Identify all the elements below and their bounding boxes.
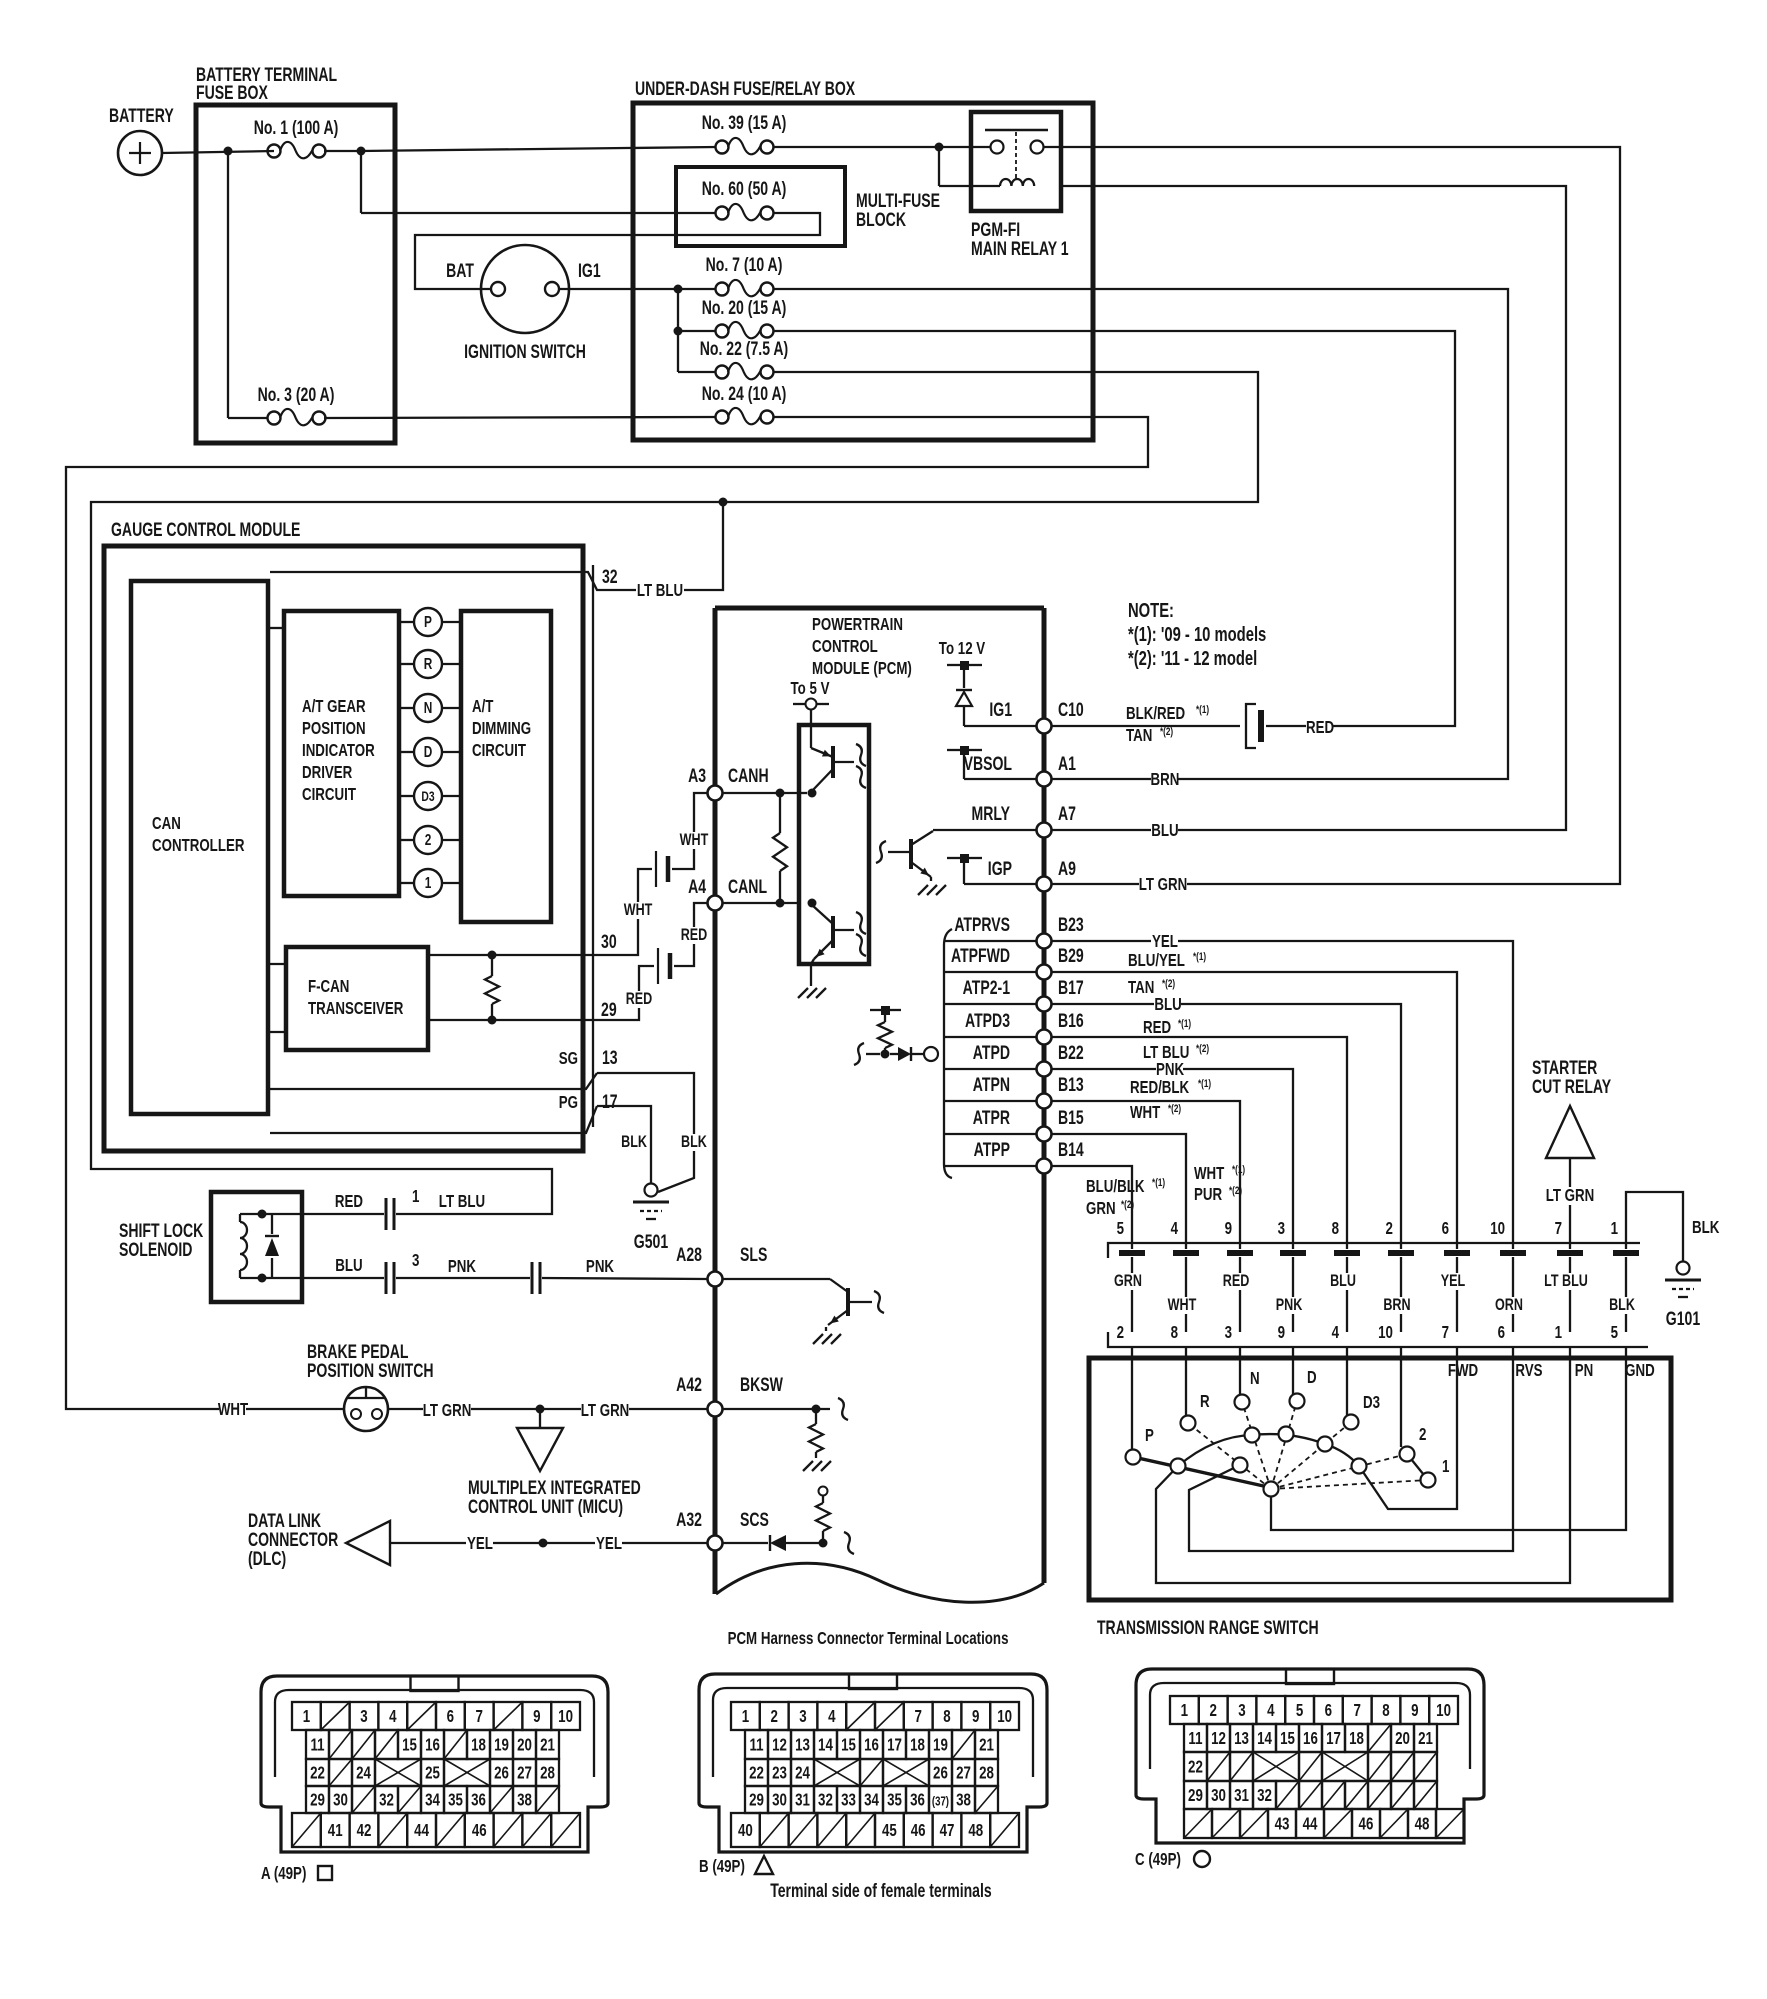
svg-text:BLK: BLK [1609,1295,1635,1314]
svg-text:7: 7 [1354,1701,1362,1720]
svg-text:13: 13 [1234,1729,1249,1748]
svg-text:*(1): *(1) [1196,704,1209,717]
gear indicator R [399,663,414,665]
wire branch down to fuse60 [360,151,362,213]
svg-text:18: 18 [910,1736,925,1755]
route arc end to FWD [1359,1466,1457,1509]
connector B cell 33 [837,1786,860,1813]
connector C cell 11 [1184,1724,1207,1752]
connector A cell 29 [306,1786,329,1813]
svg-text:D3: D3 [1363,1393,1380,1412]
connector A cell blank [321,1702,350,1730]
wire battery to fuse box [162,151,274,153]
svg-text:3: 3 [1225,1323,1233,1342]
gear indicator P [399,621,414,623]
svg-text:SCS: SCS [740,1509,769,1531]
wire fuse1 to fuse39 [361,147,716,151]
connector B cell 26 [929,1759,952,1786]
CAN termination resistor [776,789,785,798]
svg-text:20: 20 [517,1736,532,1755]
wire ATPD PNK [1051,1069,1293,1243]
svg-text:LT GRN: LT GRN [581,1401,630,1420]
svg-text:22: 22 [1188,1758,1203,1777]
svg-text:(DLC): (DLC) [248,1548,286,1570]
connector C cell 7 [1343,1696,1372,1724]
connector B cell 29 [745,1786,768,1813]
connector B cell 11 [745,1730,768,1759]
svg-text:A42: A42 [676,1374,702,1396]
connector C cell 18 [1345,1724,1368,1752]
connector B cell 38 [952,1786,975,1813]
svg-text:4: 4 [1267,1701,1275,1720]
svg-text:Terminal side of female termin: Terminal side of female terminals [770,1880,992,1902]
svg-text:YEL: YEL [467,1534,493,1553]
under-dash fuse/relay box [633,103,1093,440]
connector C cell blank [1322,1781,1345,1809]
connector C cell blank [1368,1724,1391,1752]
wire fuse39 to relay contact [773,146,990,148]
connector A cell blank [494,1702,523,1730]
connector C cell blank [1380,1809,1408,1838]
svg-text:TRANSCEIVER: TRANSCEIVER [308,999,404,1018]
connector A cell blank [375,1730,398,1759]
connector C cell 29 [1184,1781,1207,1809]
fuse No.20 (15A) [716,325,729,338]
connector B cell 27 [952,1759,975,1786]
gauge control module box [104,546,583,1151]
connector A cell 4 [378,1702,407,1730]
connector A cell 36 [467,1786,490,1813]
IG1 wire labels + connector [1051,725,1240,727]
svg-text:43: 43 [1275,1815,1290,1834]
PCM left edge [713,608,718,1594]
wiper arm [1138,1458,1268,1487]
fuse60 loop to ignition BAT [415,213,820,289]
node after fuse No.1 [357,147,366,156]
svg-text:P: P [1145,1426,1154,1445]
PCM bottom cut wave [716,1563,1044,1602]
connector B cell 36 [906,1786,929,1813]
svg-text:1: 1 [412,1187,420,1206]
wire YEL to A32 [390,1542,707,1544]
connector A cell blank [490,1786,513,1813]
svg-text:8: 8 [1171,1323,1179,1342]
shift lock solenoid [211,1192,302,1302]
ATP bracket [944,929,952,1178]
svg-text:A3: A3 [688,765,706,787]
connector B cell 28 [975,1759,998,1786]
svg-text:ATPR: ATPR [973,1107,1010,1129]
svg-text:BLU: BLU [1154,995,1181,1014]
connector A cell 28 [536,1759,559,1786]
connector B cell blank [975,1786,998,1813]
svg-text:*(1): *(1) [1152,1177,1165,1190]
svg-text:34: 34 [864,1791,879,1810]
svg-text:POSITION: POSITION [302,719,366,738]
connector A cell blank [551,1813,580,1847]
svg-text:LT GRN: LT GRN [1546,1186,1595,1205]
svg-text:14: 14 [818,1736,833,1755]
fuse No.7 (10A) [716,283,729,296]
connector B cell blank [990,1813,1019,1847]
svg-text:WHT: WHT [218,1400,249,1419]
A symbol square [318,1866,332,1880]
connector C cell blank [1324,1809,1352,1838]
svg-text:WHT: WHT [1194,1164,1225,1183]
wire pin30 WHT to capacitor to CANH [597,869,652,955]
MRLY transistor [909,839,913,869]
F-CAN transceiver [286,947,428,1050]
connector C cell blank [1184,1809,1212,1838]
svg-text:ATPN: ATPN [973,1074,1010,1096]
svg-text:F-CAN: F-CAN [308,977,349,996]
svg-text:B15: B15 [1058,1107,1084,1129]
connector A cell 6 [436,1702,465,1730]
svg-text:BLU: BLU [335,1256,362,1275]
svg-text:POSITION SWITCH: POSITION SWITCH [307,1360,433,1382]
svg-text:19: 19 [494,1736,509,1755]
wire color YEL [1440,1273,1466,1290]
svg-text:10: 10 [1490,1219,1505,1238]
connector B cell 16 [860,1730,883,1759]
connector B cell blank [875,1702,904,1730]
connector C cell 14 [1253,1724,1276,1752]
svg-text:9: 9 [972,1707,980,1726]
svg-text:5: 5 [1296,1701,1304,1720]
route center to GND [1271,1489,1626,1530]
wire LT BLU [396,1213,430,1215]
connector B cell 23 [768,1759,791,1786]
svg-text:35: 35 [448,1791,463,1810]
G101 ground wire BLK [1626,1192,1683,1262]
connector B cell blank [789,1813,818,1847]
wire BLU shift lock pin 3 [302,1277,384,1279]
svg-text:35: 35 [887,1791,902,1810]
connector A cell 15 [398,1730,421,1759]
svg-text:B16: B16 [1058,1010,1084,1032]
svg-text:13: 13 [602,1047,618,1069]
svg-text:PNK: PNK [586,1257,615,1276]
connector B cell 22 [745,1759,768,1786]
svg-text:24: 24 [356,1764,371,1783]
connector C cell 2 [1199,1696,1228,1724]
connector C cell 48 [1408,1809,1436,1838]
svg-text:26: 26 [933,1764,948,1783]
svg-text:D3: D3 [421,788,434,804]
gear indicator D3 [399,795,414,797]
connector A cell blank [494,1813,523,1847]
svg-text:29: 29 [601,999,617,1021]
connector A cell blank [378,1813,407,1847]
connector B cell blank [817,1813,846,1847]
connector B cell 14 [814,1730,837,1759]
connector B cell 34 [860,1786,883,1813]
range switch position contacts [1131,1347,1133,1450]
svg-text:CANH: CANH [728,765,769,787]
connector A cell 16 [421,1730,444,1759]
connector B cell 21 [975,1730,998,1759]
svg-text:9: 9 [1278,1323,1286,1342]
dashed rays [1188,1423,1271,1489]
fuse No.39 (15A) [716,141,729,154]
svg-text:No. 20 (15 A): No. 20 (15 A) [702,297,787,319]
connector A cell 25 [421,1759,444,1786]
gauge connector bar [592,565,594,1127]
svg-text:21: 21 [979,1736,994,1755]
connector B cell blank [952,1730,975,1759]
svg-text:PNK: PNK [1276,1295,1303,1314]
svg-text:17: 17 [602,1091,618,1113]
svg-text:WHT: WHT [680,830,709,849]
connector C cell 3 [1228,1696,1257,1724]
connector C cell 17 [1322,1724,1345,1752]
svg-text:TAN: TAN [1126,726,1152,745]
PCM top edge [715,606,1044,611]
svg-text:CAN: CAN [152,814,181,833]
svg-text:29: 29 [1188,1786,1203,1805]
svg-text:WHT: WHT [1168,1295,1197,1314]
svg-text:13: 13 [795,1736,810,1755]
svg-text:15: 15 [402,1736,417,1755]
range switch connector bottom bar [1108,1332,1648,1347]
node fuse 20 [674,327,683,336]
svg-text:IGP: IGP [988,858,1012,880]
svg-text:CONTROLLER: CONTROLLER [152,836,245,855]
svg-text:B14: B14 [1058,1139,1084,1161]
connector B cell 4 [817,1702,846,1730]
contact D [1290,1394,1305,1409]
fuse No.22 (7.5A) [716,366,729,379]
gear indicator 2 [399,839,414,841]
svg-text:FWD: FWD [1448,1361,1478,1380]
IGP terminal [960,854,969,863]
connector B cell 31 [791,1786,814,1813]
svg-text:3: 3 [799,1707,807,1726]
wire pin32 vertical [270,502,723,590]
connector pin 1 [385,1198,388,1230]
connector C cell 1 [1170,1696,1199,1724]
svg-text:No. 3 (20 A): No. 3 (20 A) [258,384,335,406]
connector C cell blank [1436,1809,1464,1838]
wire ATPP [1051,1166,1132,1243]
connector B cell 17 [883,1730,906,1759]
connector C cell 12 [1207,1724,1230,1752]
svg-text:6: 6 [1498,1323,1506,1342]
svg-text:BRN: BRN [1383,1295,1410,1314]
connector C cell 16 [1299,1724,1322,1752]
VBSOL BRN label [1151,771,1178,789]
multi-fuse block [676,167,845,246]
svg-text:To 5 V: To 5 V [791,679,830,698]
svg-text:BLU: BLU [1330,1271,1356,1290]
battery terminal fuse box [196,105,395,443]
connector A cell blank [407,1702,436,1730]
svg-text:RED: RED [681,925,708,944]
connector B cell 47 [933,1813,962,1847]
PCM right edge [1042,608,1047,1583]
svg-text:PUR: PUR [1194,1185,1223,1204]
svg-text:2: 2 [425,830,432,848]
wire fuse3 to fuse24 [324,417,716,418]
capacitor CANH noise [655,851,657,887]
svg-text:15: 15 [841,1736,856,1755]
svg-text:7: 7 [1555,1219,1563,1238]
connector A cell 21 [536,1730,559,1759]
svg-text:*(2): '11 - 12 model: *(2): '11 - 12 model [1128,647,1257,670]
svg-text:15: 15 [1280,1729,1295,1748]
svg-text:RVS: RVS [1515,1361,1542,1380]
svg-text:A1: A1 [1058,753,1076,775]
svg-text:32: 32 [818,1791,833,1810]
svg-text:*(1): *(1) [1232,1164,1245,1177]
connector A cell 34 [421,1786,444,1813]
svg-text:32: 32 [379,1791,394,1810]
wire LT GRN to A42 [388,1408,707,1410]
connector C cell 4 [1256,1696,1285,1724]
svg-text:2: 2 [1419,1425,1427,1444]
connector A cell 46 [465,1813,494,1847]
svg-text:BRN: BRN [1151,770,1180,789]
svg-text:B17: B17 [1058,977,1084,999]
connector C cell 6 [1314,1696,1343,1724]
connector A cell 30 [329,1786,352,1813]
svg-text:9: 9 [1225,1219,1233,1238]
svg-text:38: 38 [956,1791,971,1810]
connector C cell blank [1345,1781,1368,1809]
svg-text:BLU/YEL: BLU/YEL [1128,951,1185,970]
svg-text:WHT: WHT [1130,1103,1161,1122]
svg-text:ATPD3: ATPD3 [965,1010,1010,1032]
connector C cell 21 [1414,1724,1437,1752]
IG1 feed node [674,285,683,294]
svg-text:UNDER-DASH FUSE/RELAY BOX: UNDER-DASH FUSE/RELAY BOX [635,78,855,100]
svg-text:C (49P): C (49P) [1135,1850,1181,1869]
svg-text:CIRCUIT: CIRCUIT [302,785,356,804]
svg-text:BLK/RED: BLK/RED [1126,704,1185,723]
CAN driver ground [810,964,812,986]
connector C cell blank [1414,1752,1437,1781]
svg-text:10: 10 [558,1707,573,1726]
svg-text:30: 30 [772,1791,787,1810]
connector C cell blank [1391,1752,1414,1781]
wire PG internal [270,1106,597,1133]
IGP LT GRN label [1139,876,1187,894]
svg-text:BAT: BAT [446,260,475,282]
svg-text:18: 18 [471,1736,486,1755]
svg-text:16: 16 [864,1736,879,1755]
connector A cell blank [329,1759,352,1786]
connector B cell 24 [791,1759,814,1786]
svg-text:B22: B22 [1058,1042,1084,1064]
svg-text:16: 16 [425,1736,440,1755]
connector A cell blank [352,1730,375,1759]
svg-text:1: 1 [1611,1219,1619,1238]
svg-text:32: 32 [1257,1786,1272,1805]
fuse No.24 (10A) [716,411,729,424]
battery B+ terminal [118,131,162,175]
svg-text:ATPP: ATPP [974,1139,1010,1161]
connector B cell blank [846,1813,875,1847]
svg-text:30: 30 [601,931,617,953]
svg-text:A (49P): A (49P) [261,1864,306,1883]
wire SG internal [270,1073,597,1089]
connector B cell 15 [837,1730,860,1759]
svg-text:A32: A32 [676,1509,702,1531]
svg-text:BLK: BLK [1692,1218,1720,1237]
connector C cell blank [1276,1781,1299,1809]
SLS transistor [722,1278,830,1280]
connector B cell 2 [760,1702,789,1730]
svg-text:B29: B29 [1058,945,1084,967]
svg-text:N: N [424,698,433,716]
svg-text:GAUGE CONTROL MODULE: GAUGE CONTROL MODULE [111,519,300,541]
svg-text:46: 46 [1359,1815,1374,1834]
svg-text:1: 1 [303,1707,311,1726]
svg-text:7: 7 [914,1707,922,1726]
svg-text:POWERTRAIN: POWERTRAIN [812,615,903,634]
svg-text:6: 6 [1325,1701,1333,1720]
svg-text:7: 7 [476,1707,484,1726]
wire color PNK [1276,1297,1302,1314]
SCS pull-up [822,1531,824,1543]
A/T dimming circuit [461,611,551,922]
svg-text:MODULE (PCM): MODULE (PCM) [812,659,912,678]
svg-text:6: 6 [447,1707,455,1726]
CAN driver lower transistor [831,916,835,948]
connector A cell 44 [407,1813,436,1847]
svg-text:G101: G101 [1666,1308,1700,1330]
terminating resistor [491,955,493,976]
svg-text:*(1): *(1) [1193,951,1206,964]
svg-text:P: P [424,612,432,630]
wire relay contact to IGP (LT GRN) [1044,147,1620,884]
svg-text:CIRCUIT: CIRCUIT [472,741,526,760]
svg-text:PG: PG [559,1093,578,1112]
CAN driver box [799,725,869,964]
svg-text:1: 1 [1555,1323,1563,1342]
svg-text:2: 2 [1117,1323,1125,1342]
wire color BLU [1330,1273,1356,1290]
connector A cell 11 [306,1730,329,1759]
svg-text:38: 38 [517,1791,532,1810]
svg-text:PNK: PNK [1156,1060,1185,1079]
wire fuse20 to IG1 (RED) [773,331,1455,726]
svg-text:LT GRN: LT GRN [423,1401,472,1420]
wire relay coil to MRLY (BLU) [1051,186,1566,830]
connector A cell 1 [292,1702,321,1730]
connector C cell blank [1368,1781,1391,1809]
svg-text:CONTROL: CONTROL [812,637,878,656]
svg-text:4: 4 [828,1707,836,1726]
connector pin 3 [385,1262,388,1294]
svg-text:46: 46 [472,1821,487,1840]
svg-text:8: 8 [1332,1219,1340,1238]
fuse No.3 (20A) [268,412,281,425]
connector A shell [261,1676,608,1852]
svg-text:IG1: IG1 [989,699,1012,721]
svg-text:29: 29 [310,1791,325,1810]
svg-text:*(2): *(2) [1160,726,1173,739]
connector A cell blank [444,1730,467,1759]
svg-text:MRLY: MRLY [972,803,1011,825]
connector C cell 22 [1184,1752,1207,1781]
connector A cell 22 [306,1759,329,1786]
connector A cell blank [398,1786,421,1813]
svg-text:46: 46 [911,1821,926,1840]
fuse No.60 (50A) [716,207,729,220]
connector C cell 46 [1352,1809,1380,1838]
svg-text:B (49P): B (49P) [699,1857,745,1876]
